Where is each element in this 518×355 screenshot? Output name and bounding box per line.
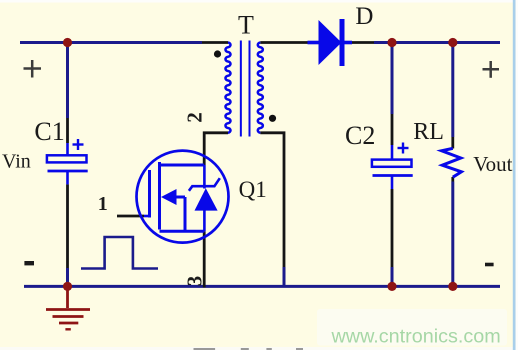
svg-text:www.cntronics.com: www.cntronics.com: [331, 325, 501, 347]
svg-text:Vin: Vin: [2, 150, 31, 172]
svg-text:Vout: Vout: [473, 152, 512, 176]
svg-text:2: 2: [182, 112, 206, 123]
svg-text:T: T: [238, 10, 254, 39]
svg-text:Q1: Q1: [239, 177, 267, 202]
svg-text:C1: C1: [34, 117, 64, 146]
svg-text:C2: C2: [345, 121, 375, 150]
svg-text:1: 1: [98, 193, 108, 215]
svg-text:3: 3: [182, 276, 206, 287]
svg-text:RL: RL: [413, 119, 444, 145]
svg-text:D: D: [355, 3, 373, 30]
